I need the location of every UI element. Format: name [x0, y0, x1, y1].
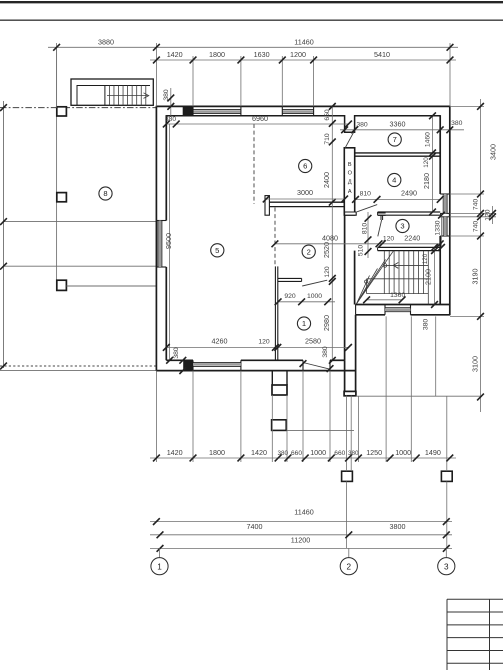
svg-text:650: 650 — [324, 109, 331, 121]
room 3 circle — [396, 219, 409, 232]
svg-text:2400: 2400 — [322, 172, 331, 188]
svg-text:3: 3 — [400, 222, 404, 231]
room 5 circle — [211, 244, 224, 257]
svg-text:1000: 1000 — [307, 293, 322, 300]
svg-text:1: 1 — [157, 562, 162, 571]
svg-text:1330: 1330 — [435, 220, 442, 235]
svg-text:120: 120 — [423, 157, 430, 168]
svg-text:710: 710 — [324, 133, 331, 145]
dim 1360 winders — [367, 299, 403, 301]
svg-text:6: 6 — [303, 162, 307, 171]
svg-text:1: 1 — [302, 319, 306, 328]
svg-text:5: 5 — [215, 246, 219, 255]
svg-text:11200: 11200 — [291, 536, 310, 545]
left wall window jambs — [156, 220, 166, 222]
title block table bottom right — [447, 598, 503, 600]
svg-text:2490: 2490 — [401, 189, 417, 198]
partition room2/room1 stub — [278, 277, 302, 279]
terrace bottom solid line — [0, 369, 156, 371]
room3 door leaf — [378, 220, 382, 236]
svg-text:1800: 1800 — [209, 448, 225, 457]
dim 380/3360/380 room7 top — [340, 129, 464, 131]
room 2 circle — [302, 245, 315, 258]
dim 4080/120/2240 — [275, 243, 440, 245]
svg-text:380: 380 — [173, 347, 180, 359]
svg-text:660: 660 — [291, 450, 302, 457]
dim 120/2100 stairs — [434, 247, 436, 304]
right chain dim line — [480, 99, 482, 412]
svg-text:3190: 3190 — [470, 269, 479, 285]
dim 1460 room7 — [432, 116, 434, 212]
ticks on left cut dimension line — [0, 104, 7, 111]
svg-text:510: 510 — [358, 245, 365, 257]
svg-text:7400: 7400 — [247, 522, 263, 531]
partition room5/room1 — [274, 266, 276, 360]
svg-text:2580: 2580 — [305, 337, 321, 346]
terrace column squares — [57, 107, 67, 116]
winder fan rays — [357, 251, 394, 304]
porch slab edge line under pier — [287, 430, 354, 432]
stair direction arrow — [383, 264, 387, 268]
exterior wall: right outer face — [449, 106, 451, 316]
dark pier left of window1 — [183, 106, 193, 115]
svg-text:2240: 2240 — [404, 233, 420, 242]
top wall window 2 — [282, 109, 313, 111]
svg-text:380: 380 — [322, 346, 329, 358]
svg-text:8: 8 — [103, 189, 107, 198]
exterior wall: left inner face (window gap) — [165, 115, 167, 220]
svg-text:3400: 3400 — [489, 144, 498, 160]
svg-text:5410: 5410 — [374, 50, 390, 59]
pier below bottom wall — [271, 371, 273, 385]
svg-text:740: 740 — [472, 221, 479, 233]
svg-text:120: 120 — [383, 235, 395, 242]
svg-text:920: 920 — [284, 293, 296, 300]
room 8 circle — [99, 187, 112, 200]
svg-text:3100: 3100 — [470, 356, 479, 372]
svg-text:810: 810 — [362, 223, 369, 235]
svg-text:2: 2 — [347, 562, 352, 571]
svg-text:6960: 6960 — [252, 114, 268, 123]
wall room7/room4 (120) — [355, 152, 441, 154]
room 4 circle — [388, 173, 401, 186]
svg-text:380: 380 — [348, 450, 359, 457]
dim line 11200 — [150, 547, 452, 549]
dim 3000 room6 — [266, 198, 344, 200]
svg-text:О: О — [348, 170, 353, 176]
dim 810/2490 room4 — [356, 198, 441, 200]
grid bubbles — [159, 548, 161, 557]
extension lines above building — [56, 43, 58, 108]
bottom wall door opening jambs — [302, 360, 304, 370]
svg-text:810: 810 — [360, 191, 372, 198]
right wall windows (two) with mullion — [440, 193, 450, 195]
svg-text:11460: 11460 — [294, 37, 313, 46]
svg-text:1420: 1420 — [251, 448, 267, 457]
wall room6/room2 — [267, 201, 345, 203]
dashed overhead beam line B — [274, 208, 276, 266]
svg-text:А: А — [348, 189, 352, 195]
svg-text:120: 120 — [485, 209, 492, 221]
svg-text:660: 660 — [334, 450, 345, 457]
axis2 wall east face — [354, 148, 356, 212]
water shaft box — [344, 148, 354, 215]
svg-text:380: 380 — [451, 120, 463, 127]
stub end cap — [344, 391, 356, 395]
stair south wall window — [384, 305, 386, 315]
dim line 3880 + 11460 (top row) — [48, 46, 458, 48]
dark pier left of bottom window — [183, 361, 193, 371]
svg-text:2980: 2980 — [322, 315, 331, 331]
svg-text:3: 3 — [444, 562, 449, 571]
room4 door leaf — [357, 205, 377, 212]
svg-text:380: 380 — [356, 122, 368, 129]
dim chain row2: 1420 1800 1630 1200 5410 — [150, 59, 456, 61]
svg-text:11460: 11460 — [294, 508, 313, 517]
svg-text:3360: 3360 — [390, 120, 406, 129]
exterior wall: right inner face segments — [439, 115, 441, 194]
svg-text:4080: 4080 — [322, 233, 338, 242]
room3 door T-jamb — [378, 213, 386, 220]
svg-text:4: 4 — [392, 176, 396, 185]
bottom wall window jambs — [192, 360, 194, 370]
external stair inner landing line — [77, 86, 150, 106]
svg-text:1360: 1360 — [390, 292, 405, 299]
svg-text:380: 380 — [278, 450, 289, 457]
room 1 circle — [297, 317, 310, 330]
pier end cap — [272, 385, 287, 395]
svg-text:1630: 1630 — [254, 50, 270, 59]
porch edge line right of stub — [356, 395, 482, 397]
dim 810/510 door chain — [367, 212, 369, 258]
svg-text:2: 2 — [307, 247, 311, 256]
svg-text:9500: 9500 — [164, 233, 173, 249]
svg-text:2100: 2100 — [424, 269, 433, 285]
wall room4/room3 with door opening — [345, 212, 357, 215]
jamb tab at west end of 6/2 wall — [265, 196, 269, 216]
terrace column axis line — [56, 48, 58, 291]
svg-text:1420: 1420 — [167, 50, 183, 59]
svg-text:740: 740 — [472, 199, 479, 211]
secondary 120 dim right — [492, 206, 494, 224]
dim line 11460 bottom — [150, 521, 452, 523]
svg-text:3880: 3880 — [98, 37, 114, 46]
bottom wall window glazing — [193, 361, 241, 363]
porch column axis2 — [342, 471, 353, 481]
terrace mid horizontal line A — [4, 221, 157, 223]
svg-text:1420: 1420 — [167, 448, 183, 457]
svg-text:380: 380 — [165, 116, 176, 123]
svg-text:1000: 1000 — [395, 448, 411, 457]
terrace column 3 link line — [66, 285, 156, 287]
terrace top dashed edge — [0, 107, 156, 109]
svg-text:2180: 2180 — [422, 173, 431, 189]
svg-text:3000: 3000 — [297, 188, 313, 197]
terrace left boundary (cut) — [3, 101, 5, 368]
bottom door leaf diagonal — [304, 363, 331, 370]
stub column thin guides — [345, 395, 347, 471]
svg-text:380: 380 — [423, 319, 430, 331]
svg-text:120: 120 — [324, 266, 331, 278]
stair block south wall — [356, 304, 450, 306]
dim 920/1000 room1 top — [278, 301, 335, 303]
svg-text:4260: 4260 — [212, 337, 228, 346]
porch column axis3 — [441, 471, 452, 481]
left wall window glazing — [157, 221, 159, 268]
svg-text:120: 120 — [422, 253, 429, 264]
stair north partition (120) — [378, 246, 441, 248]
internal stair treads — [383, 251, 385, 294]
exterior wall: top outer face — [156, 105, 449, 107]
terrace bottom dotted edge — [0, 365, 156, 367]
svg-text:В: В — [348, 162, 352, 168]
svg-text:1250: 1250 — [366, 448, 382, 457]
dim 1330 room3 — [441, 215, 443, 247]
interior dim 380/6960 at top of room5 — [166, 123, 348, 125]
exterior wall: left outer face — [155, 106, 157, 371]
external stair direction arrow — [107, 95, 148, 97]
extension lines below building — [155, 371, 157, 462]
detached porch column under pier — [272, 420, 287, 431]
room1 door leaf — [302, 280, 327, 286]
room 7 circle — [388, 133, 401, 146]
svg-text:1800: 1800 — [209, 50, 225, 59]
exterior wall: bottom inner face segments — [166, 359, 193, 361]
svg-text:1200: 1200 — [290, 50, 306, 59]
vertical chain 650/710/2400/... at x 332 — [331, 106, 333, 360]
bottom chain row1 values — [150, 457, 456, 459]
dim line 7400 / 3800 — [150, 534, 452, 536]
small 380 dim at top-left corner — [170, 88, 172, 116]
svg-text:1460: 1460 — [424, 132, 431, 147]
svg-text:Д: Д — [348, 179, 352, 185]
svg-text:3800: 3800 — [390, 522, 406, 531]
interior dim 9500 room5 left — [169, 124, 171, 360]
svg-text:1000: 1000 — [310, 448, 326, 457]
right chain extension lines — [450, 105, 484, 107]
sheet divider lines top — [0, 1, 503, 3]
room 6 circle — [299, 159, 312, 172]
terrace mid horizontal line B — [4, 265, 157, 267]
top wall window 1 — [193, 109, 241, 111]
internal stair box lines — [384, 264, 428, 266]
svg-text:2520: 2520 — [322, 242, 331, 258]
dim 4260/120/2580 room5 bottom — [166, 346, 348, 348]
svg-text:120: 120 — [258, 339, 270, 346]
dashed overhead beam line A — [253, 124, 255, 204]
external stair treads — [108, 86, 110, 106]
exterior wall: top inner face with entrance niche — [166, 116, 440, 133]
porch stub wall below (axis2) — [344, 357, 346, 360]
svg-text:7: 7 — [393, 135, 397, 144]
svg-text:1490: 1490 — [425, 448, 441, 457]
axis2 wall west face — [344, 148, 346, 212]
exterior wall: bottom outer face (main) — [156, 370, 355, 372]
entrance door leaf at niche — [345, 127, 356, 148]
external entry stair outline — [71, 79, 153, 105]
svg-text:380: 380 — [163, 89, 170, 101]
